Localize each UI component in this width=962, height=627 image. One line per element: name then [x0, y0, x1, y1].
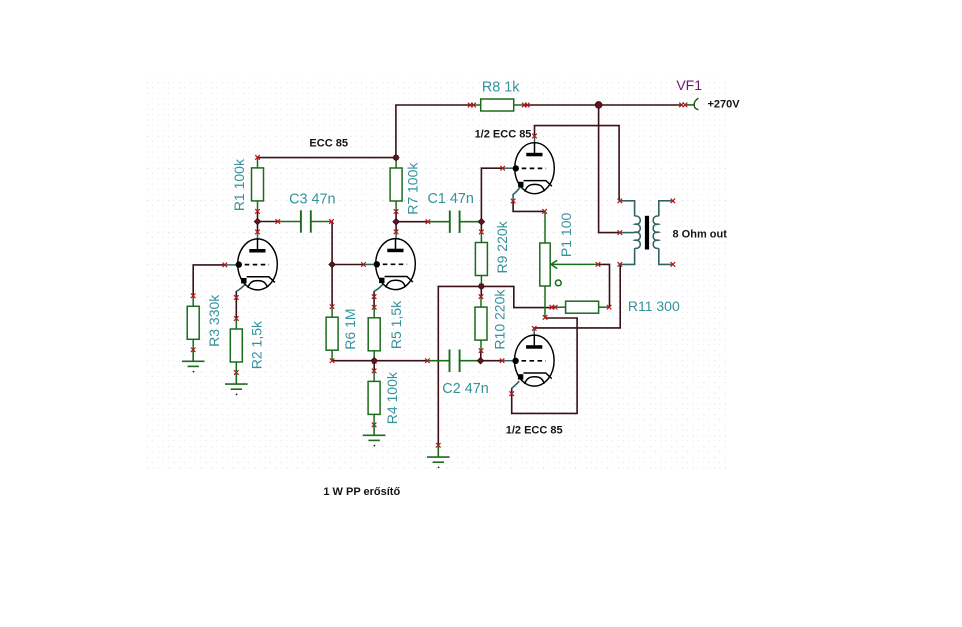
transformer VF1 core	[645, 216, 649, 250]
transformer VF1 center tap	[620, 232, 635, 234]
pin X primary tap	[618, 230, 623, 235]
wire B+ to center tap	[599, 105, 620, 233]
pin X ground net	[436, 443, 441, 448]
svg-text:R11 300: R11 300	[628, 298, 680, 314]
wire grid stub T1	[225, 264, 237, 266]
pin X grid T2	[361, 262, 366, 267]
capacitor C1	[428, 211, 481, 233]
pin X C1 left	[426, 219, 431, 224]
wire cathode T2 to R5	[373, 291, 375, 308]
wire cathode stub T1	[236, 283, 246, 291]
pin X cathode T2	[372, 294, 377, 299]
svg-text:R6 1M: R6 1M	[342, 308, 358, 349]
resistor R10	[475, 294, 487, 353]
wire cathode stub T3	[513, 187, 520, 201]
wire R10 to rail node	[480, 350, 482, 360]
svg-text:R10 220k: R10 220k	[492, 289, 508, 350]
resistor R4	[368, 369, 380, 428]
pin X VF1 b	[683, 103, 688, 108]
svg-text:R5 1,5k: R5 1,5k	[388, 300, 404, 349]
wire wiper to R11 right	[598, 264, 610, 307]
wire grid stub T2	[364, 263, 376, 265]
resistor R3	[187, 294, 199, 353]
transformer VF1 primary feed bottom	[620, 248, 635, 264]
wire grid stub T4	[502, 360, 513, 362]
svg-text:R3 330k: R3 330k	[206, 294, 222, 347]
wire node to C3 left	[258, 221, 279, 223]
pin X anode T4	[532, 326, 537, 331]
svg-text:C1 47n: C1 47n	[427, 191, 473, 207]
pin X R11 left extra	[550, 305, 555, 310]
wire anode stub T4	[533, 328, 535, 335]
svg-text:1/2 ECC 85: 1/2 ECC 85	[475, 129, 532, 141]
wire R9 node to ground	[438, 286, 481, 445]
ground R4	[363, 424, 386, 447]
transformer VF1 secondary winding	[653, 216, 658, 248]
wire R9 node to R11 left	[481, 286, 555, 307]
pin X primary bottom	[618, 262, 623, 267]
wire bottom rail left	[332, 360, 428, 362]
junction R9 R10	[478, 283, 485, 290]
svg-text:R4 100k: R4 100k	[384, 371, 400, 424]
wire cathode T3 to P1 top	[513, 201, 544, 211]
pin X P1 top	[542, 209, 547, 214]
pin X C3 left	[276, 219, 281, 224]
wire R7 bottom to anode T2	[395, 211, 397, 232]
junction top rail	[595, 102, 602, 109]
pin X anode T1	[255, 230, 260, 235]
capacitor C3	[278, 210, 331, 232]
pin X cathode T1	[234, 295, 239, 300]
pin X grid T3	[500, 166, 505, 171]
wire node to C1 left	[396, 221, 428, 223]
triode U2 ECC85 b	[374, 239, 416, 290]
svg-text:C2 47n: C2 47n	[442, 381, 488, 397]
transformer VF1 secondary feed top	[659, 201, 673, 216]
svg-text:C3 47n: C3 47n	[289, 191, 335, 207]
wire grid T1 to R3	[193, 265, 225, 296]
triode U1 ECC85 a	[236, 239, 278, 290]
wire R1 bottom to anode T1	[257, 211, 259, 232]
capacitor C2	[427, 350, 480, 373]
svg-text:R9 220k: R9 220k	[494, 220, 510, 273]
junction C2 R10	[477, 357, 484, 364]
transformer VF1 primary winding	[635, 216, 640, 248]
wire anode T3 to primary top	[535, 126, 620, 201]
svg-text:R7 100k: R7 100k	[405, 162, 421, 215]
wire ECC85 net	[258, 157, 396, 159]
pin X cathode T3	[511, 199, 516, 204]
connector VF1 +270V	[686, 98, 698, 110]
transformer VF1 secondary feed bottom	[659, 248, 673, 264]
wire C1 node to R9	[480, 222, 482, 233]
pin X grid T1	[223, 263, 228, 268]
svg-text:+270V: +270V	[707, 99, 740, 111]
wire bottom rail to grid T4	[481, 360, 503, 362]
wire grid T2	[332, 264, 363, 266]
resistor R11	[553, 301, 612, 313]
wire node R4	[373, 361, 375, 372]
junction R5 R4	[371, 357, 378, 364]
potentiometer P1	[540, 211, 598, 317]
resistor R5	[368, 305, 380, 364]
pin X secondary bottom	[671, 262, 676, 267]
pin X VF1 a	[679, 103, 684, 108]
resistor R6	[326, 304, 338, 363]
svg-text:VF1: VF1	[676, 77, 702, 93]
wire P1 bottom loop to cathode T4	[512, 318, 577, 413]
wire primary bottom to anode T4	[534, 265, 620, 329]
wire cathode stub T4	[512, 381, 520, 388]
ground R3	[182, 350, 205, 373]
svg-text:1 W PP erősítő: 1 W PP erősítő	[323, 486, 400, 498]
wire anode stub T1	[257, 232, 259, 239]
pin X cathode T4	[509, 391, 514, 396]
resistor R8	[468, 99, 527, 111]
resistor R7	[390, 155, 402, 214]
wire anode stub T3	[534, 136, 536, 143]
wire C1 node up to grid T3	[481, 168, 502, 222]
resistor R9	[475, 230, 487, 289]
resistor R1	[252, 155, 264, 214]
svg-text:8 Ohm out: 8 Ohm out	[673, 229, 728, 241]
pin X C3 right	[329, 219, 334, 224]
svg-text:R1 100k: R1 100k	[231, 158, 247, 211]
pin X primary top	[618, 199, 623, 204]
svg-text:ECC 85: ECC 85	[309, 138, 348, 150]
pin X P1 bottom	[543, 315, 548, 320]
wire top rail left	[396, 105, 470, 158]
wire R9 node to R10	[480, 286, 482, 297]
ground C2 net	[427, 445, 450, 468]
svg-text:R8 1k: R8 1k	[482, 80, 520, 96]
pin X anode T3	[532, 134, 537, 139]
junction C1 R9	[478, 218, 485, 225]
wire cathode stub T2	[374, 283, 384, 291]
wire C3 right down	[331, 222, 334, 265]
junction grid T2 R6	[329, 261, 336, 268]
wire top rail right	[525, 104, 682, 106]
pin X wiper net	[596, 262, 601, 267]
wire cathode T1 to R2	[235, 291, 237, 319]
transformer VF1 primary feed top	[620, 201, 635, 216]
pin X grid T4	[500, 358, 505, 363]
pin X C2 left	[425, 358, 430, 363]
resistor R2	[230, 316, 242, 375]
triode U3 1/2 ECC85 top	[513, 143, 555, 194]
wire grid stub T3	[503, 167, 514, 169]
pin X R8 left extra	[471, 103, 476, 108]
wire node to R6	[331, 265, 333, 307]
junction anode T2 C1	[393, 218, 400, 225]
pin X R8 right extra	[525, 103, 530, 108]
pin X anode T2	[394, 230, 399, 235]
svg-text:P1 100: P1 100	[558, 213, 574, 258]
pin X secondary top	[671, 199, 676, 204]
junction ECC85 R7	[393, 154, 400, 161]
junction anode T1 C3	[254, 218, 261, 225]
wire anode stub T2	[395, 232, 397, 239]
svg-text:R2 1,5k: R2 1,5k	[249, 320, 265, 369]
ground R2	[225, 372, 248, 395]
triode U4 1/2 ECC85 bottom	[512, 335, 554, 386]
svg-text:1/2 ECC 85: 1/2 ECC 85	[506, 424, 563, 436]
